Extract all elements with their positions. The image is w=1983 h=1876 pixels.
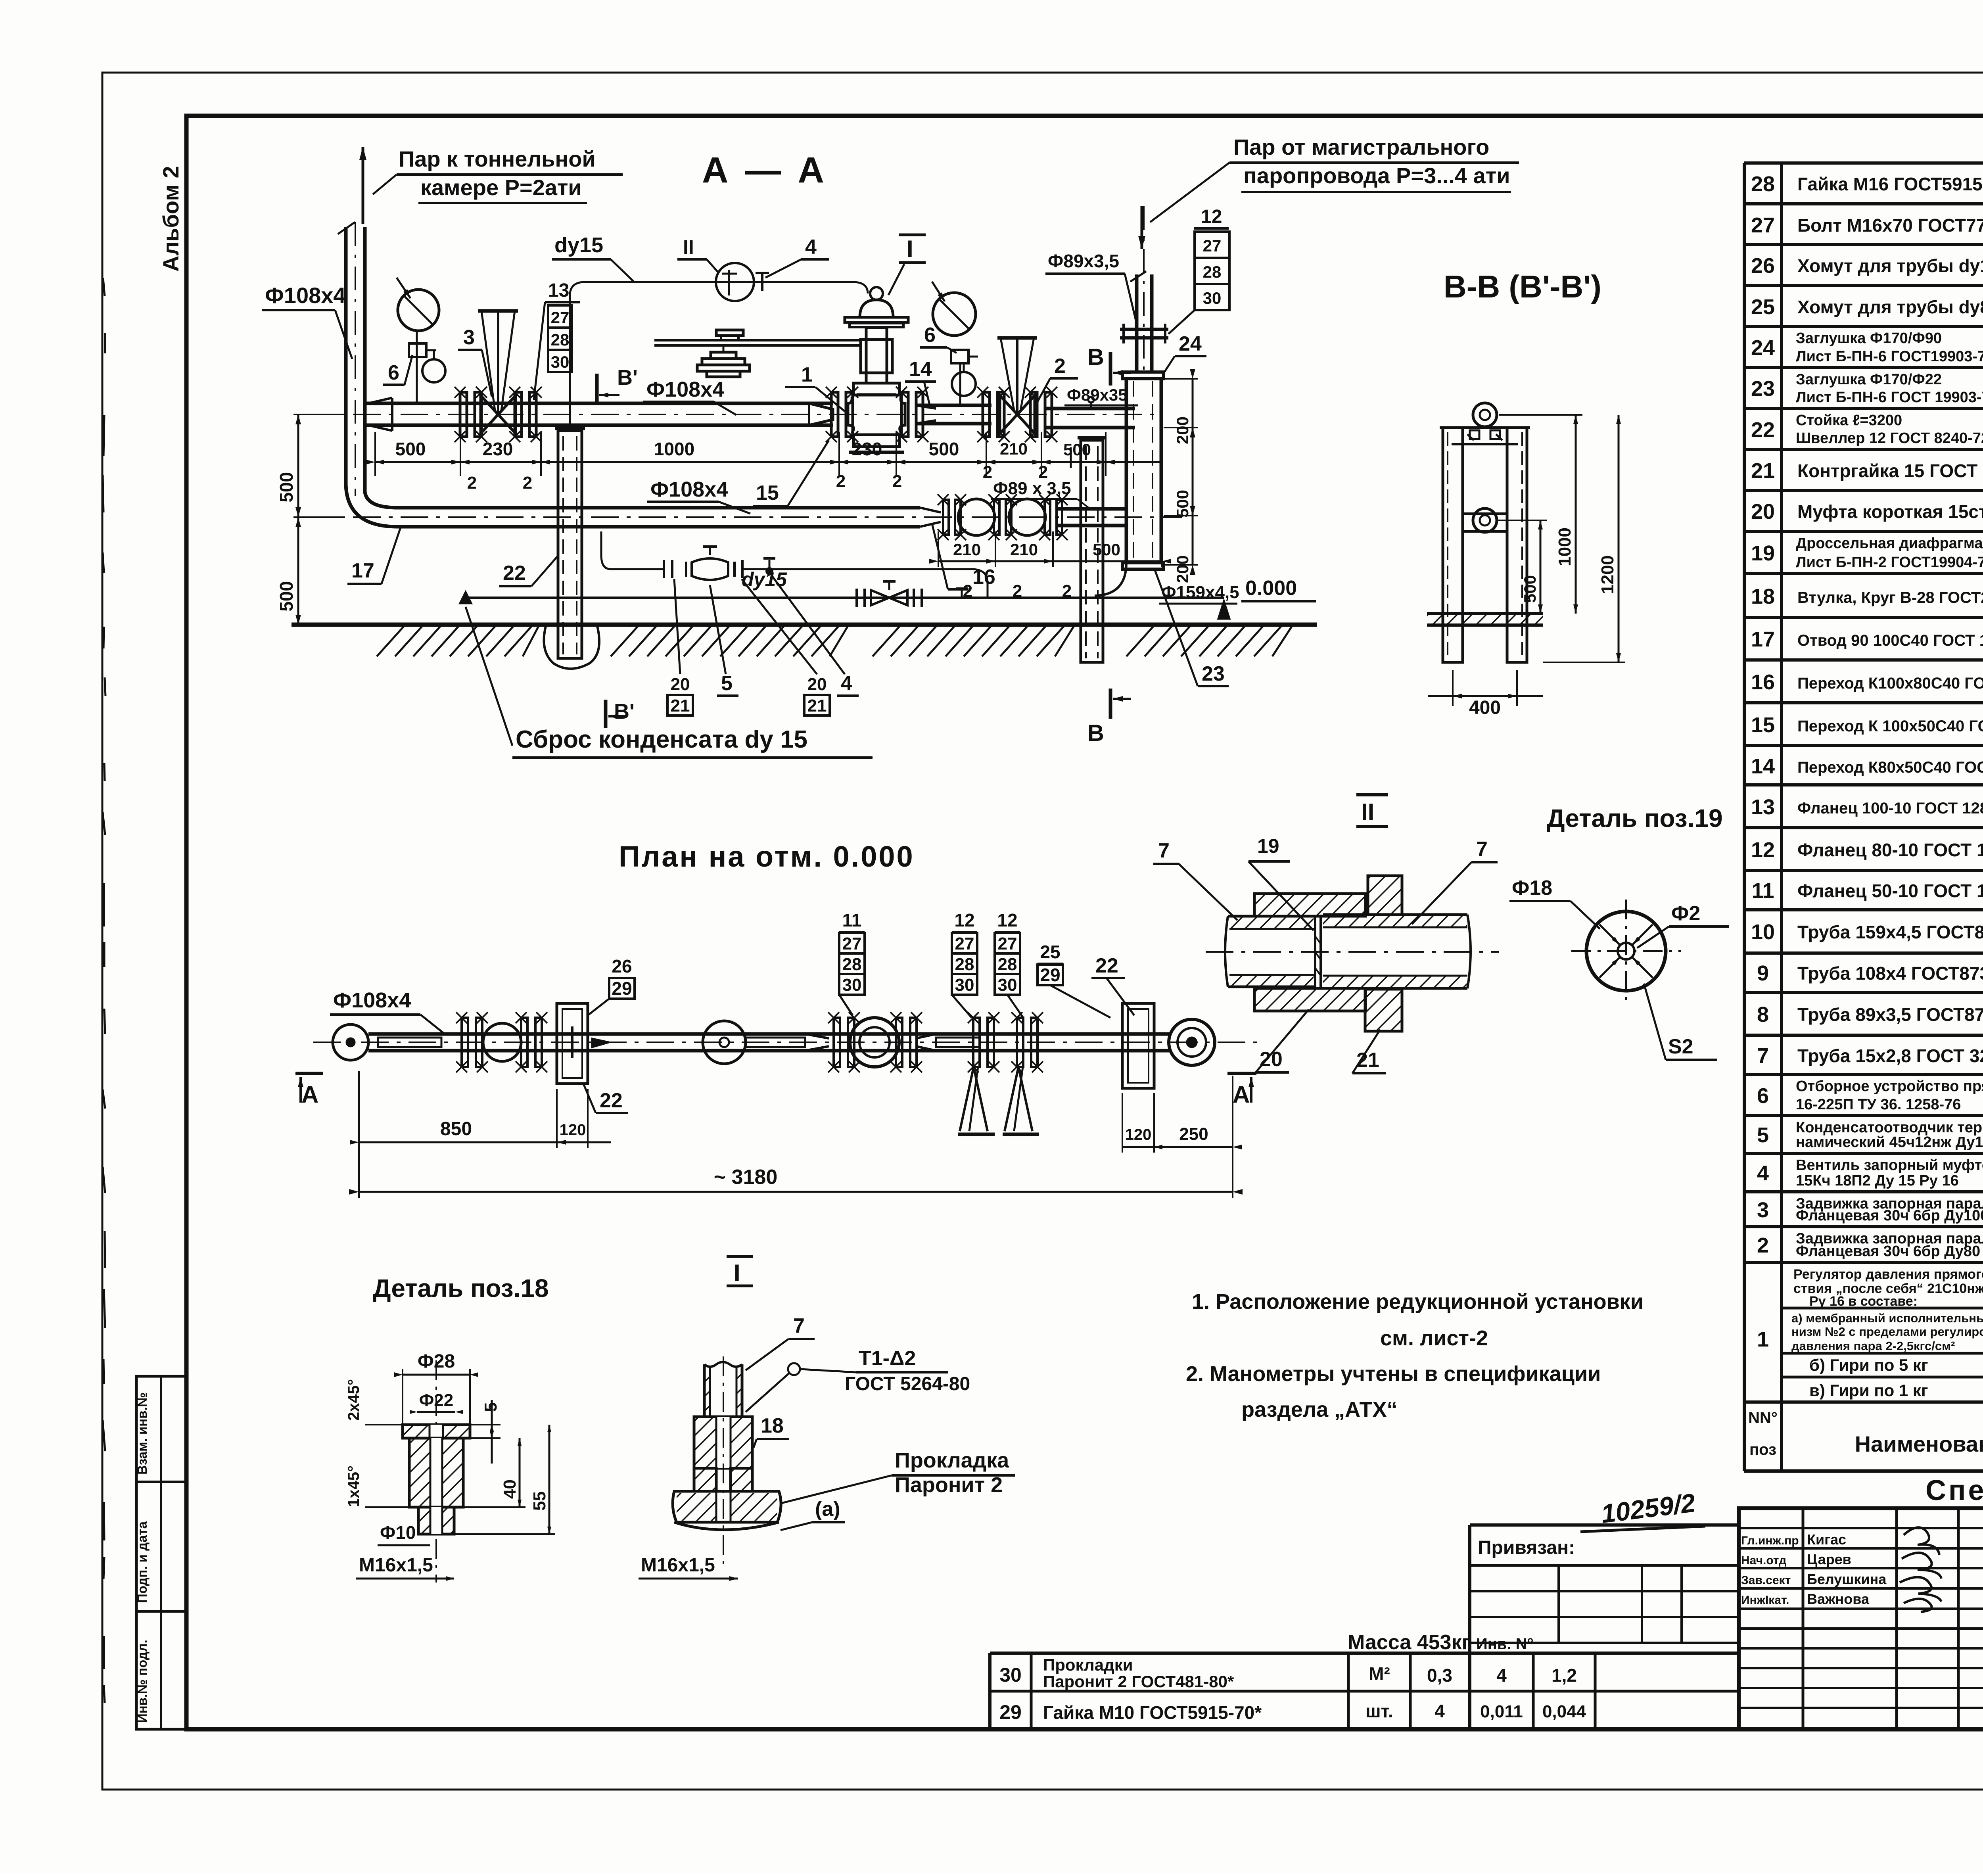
regulator membrane flange bbox=[845, 317, 908, 322]
svg-text:Паронит 2: Паронит 2 bbox=[895, 1473, 1003, 1497]
svg-text:Альбом 2: Альбом 2 bbox=[158, 166, 183, 272]
small tee valve on manifold bbox=[769, 560, 771, 569]
svg-text:400: 400 bbox=[1469, 697, 1501, 718]
svg-text:Зав.сект: Зав.сект bbox=[1741, 1574, 1791, 1587]
detail II centerline bbox=[1206, 951, 1499, 953]
plan right riser circles bbox=[1169, 1019, 1215, 1065]
svg-text:200: 200 bbox=[1173, 555, 1192, 583]
svg-text:1: 1 bbox=[1757, 1327, 1769, 1351]
plan post with clamp 26 bbox=[557, 1003, 588, 1084]
svg-text:6: 6 bbox=[924, 324, 936, 347]
svg-text:2: 2 bbox=[523, 473, 532, 493]
node I weld symbol bbox=[788, 1363, 800, 1375]
svg-text:Гл.инж.пр: Гл.инж.пр bbox=[1741, 1534, 1799, 1547]
svg-text:М16х1,5: М16х1,5 bbox=[641, 1555, 715, 1576]
svg-text:Ф108х4: Ф108х4 bbox=[646, 378, 724, 401]
svg-text:паропровода Р=3...4 ати: паропровода Р=3...4 ати bbox=[1243, 163, 1510, 188]
svg-text:12: 12 bbox=[954, 910, 974, 930]
plan flange valve flange bbox=[462, 1018, 468, 1067]
svg-text:2: 2 bbox=[1757, 1233, 1769, 1257]
svg-text:11: 11 bbox=[1751, 879, 1774, 903]
svg-text:Хомут для трубы dy100: Хомут для трубы dy100 bbox=[1797, 255, 1983, 276]
svg-text:29: 29 bbox=[612, 978, 632, 999]
plan left elbow circle 17 bbox=[333, 1024, 368, 1060]
svg-text:23: 23 bbox=[1202, 662, 1225, 685]
svg-text:11: 11 bbox=[842, 910, 862, 930]
svg-text:Переход К100х80С40 ГОСТ17378-8: Переход К100х80С40 ГОСТ17378-83* bbox=[1797, 675, 1983, 692]
svg-text:давления пара 2-2,5кгс/см²: давления пара 2-2,5кгс/см² bbox=[1791, 1339, 1955, 1353]
detail II diaphragm 19 bbox=[1314, 916, 1316, 988]
svg-text:I: I bbox=[734, 1260, 740, 1286]
detail II right pipe bbox=[1467, 915, 1471, 988]
svg-text:2: 2 bbox=[1038, 462, 1048, 482]
svg-text:7: 7 bbox=[793, 1314, 805, 1337]
plan slot in pipe bbox=[378, 1038, 441, 1047]
detail 18 body bbox=[409, 1438, 463, 1507]
flange pair right of valve 3 bbox=[515, 392, 522, 437]
svg-text:Хомут для трубы dy80: Хомут для трубы dy80 bbox=[1797, 297, 1983, 317]
svg-text:б) Гири по 5 кг: б) Гири по 5 кг bbox=[1809, 1356, 1928, 1374]
B-B top crossbar bbox=[1440, 426, 1530, 429]
detail 18 dim 40 bbox=[519, 1438, 521, 1507]
svg-text:Отвод 90 100С40 ГОСТ 17375-: Отвод 90 100С40 ГОСТ 17375-83* bbox=[1797, 632, 1983, 649]
ground hatching bbox=[377, 625, 405, 656]
svg-text:30: 30 bbox=[955, 975, 974, 995]
svg-text:4: 4 bbox=[1435, 1701, 1445, 1721]
svg-text:17: 17 bbox=[1751, 627, 1775, 651]
support post 22 bbox=[558, 431, 582, 658]
svg-text:6: 6 bbox=[1757, 1084, 1769, 1108]
svg-text:Паронит 2 ГОСТ481-80*: Паронит 2 ГОСТ481-80* bbox=[1043, 1672, 1234, 1691]
B-B left post bbox=[1443, 428, 1463, 662]
svg-text:Ф2: Ф2 bbox=[1671, 902, 1700, 925]
detail 18 top plate bbox=[403, 1425, 470, 1438]
scan marks left margin bbox=[103, 278, 105, 296]
svg-text:21: 21 bbox=[671, 696, 690, 715]
svg-text:13: 13 bbox=[548, 280, 569, 301]
svg-text:30: 30 bbox=[998, 975, 1017, 995]
svg-text:2х45°: 2х45° bbox=[345, 1379, 362, 1421]
svg-text:Швеллер 12 ГОСТ 8240-72*: Швеллер 12 ГОСТ 8240-72* bbox=[1796, 430, 1983, 447]
svg-text:8: 8 bbox=[1757, 1003, 1769, 1026]
svg-text:2: 2 bbox=[983, 462, 992, 482]
arrow down steam in bbox=[1141, 206, 1143, 249]
svg-text:Гайка М10 ГОСТ5915-70*: Гайка М10 ГОСТ5915-70* bbox=[1043, 1702, 1262, 1723]
impulse line dy15 bbox=[569, 295, 571, 403]
svg-text:19: 19 bbox=[1751, 541, 1775, 565]
dim 500 500 vertical left bbox=[297, 414, 299, 625]
svg-text:Т1-Δ2: Т1-Δ2 bbox=[859, 1347, 916, 1370]
svg-text:Ф89х35: Ф89х35 bbox=[1067, 386, 1128, 404]
node I bushing 18 bbox=[694, 1417, 752, 1468]
svg-text:28: 28 bbox=[998, 955, 1017, 974]
svg-text:18: 18 bbox=[761, 1414, 784, 1437]
svg-text:1200: 1200 bbox=[1598, 555, 1617, 594]
svg-text:5: 5 bbox=[1757, 1123, 1769, 1147]
detail 18 dim F28 bbox=[402, 1369, 403, 1425]
pit blob around post bbox=[544, 625, 599, 669]
detail II left pipe bbox=[1225, 916, 1228, 987]
svg-text:20: 20 bbox=[1260, 1048, 1283, 1071]
svg-text:Труба 15х2,8 ГОСТ 3262-75*: Труба 15х2,8 ГОСТ 3262-75* bbox=[1797, 1045, 1983, 1066]
detail 19 circle bbox=[1586, 911, 1666, 991]
svg-text:230: 230 bbox=[483, 439, 513, 459]
detail 19 radial arrows bbox=[1633, 958, 1653, 978]
svg-text:40: 40 bbox=[500, 1479, 520, 1499]
pipe to collector bbox=[1044, 407, 1135, 410]
svg-text:28: 28 bbox=[1203, 263, 1222, 281]
svg-text:17: 17 bbox=[351, 559, 374, 582]
svg-text:21: 21 bbox=[1751, 459, 1775, 483]
B-B top pipe clamp bbox=[1473, 403, 1497, 427]
svg-text:12: 12 bbox=[997, 910, 1017, 930]
plan pipe bbox=[368, 1032, 1170, 1036]
svg-text:В: В bbox=[1087, 344, 1104, 370]
support post right bbox=[1081, 440, 1103, 662]
svg-text:Стойка ℓ=3200: Стойка ℓ=3200 bbox=[1796, 412, 1902, 429]
specification table grid bbox=[1744, 161, 1983, 165]
svg-text:12: 12 bbox=[1201, 206, 1222, 227]
svg-text:26: 26 bbox=[612, 956, 632, 976]
svg-text:500: 500 bbox=[1173, 490, 1192, 518]
svg-text:20: 20 bbox=[671, 675, 690, 694]
condensate ground line bbox=[466, 597, 1224, 599]
svg-text:Пар к тоннельной: Пар к тоннельной bbox=[399, 146, 596, 171]
svg-text:а) мембранный исполнительный м: а) мембранный исполнительный меха- bbox=[1791, 1311, 1983, 1325]
svg-text:Ф108х4: Ф108х4 bbox=[333, 988, 411, 1012]
svg-text:22: 22 bbox=[503, 562, 526, 585]
riser flange joint bbox=[1120, 328, 1168, 331]
svg-text:А — А: А — А bbox=[702, 150, 827, 190]
drain arrow tick bbox=[460, 592, 471, 603]
svg-text:Привязан:: Привязан: bbox=[1478, 1537, 1575, 1558]
svg-text:210: 210 bbox=[953, 540, 981, 559]
manifold down to drain level bbox=[972, 569, 988, 597]
svg-text:2. Манометры учтены в спе: 2. Манометры учтены в спецификации bbox=[1186, 1362, 1601, 1386]
valve 4 on impulse line bbox=[761, 273, 763, 291]
svg-text:500: 500 bbox=[1063, 440, 1091, 459]
svg-text:Ф10: Ф10 bbox=[380, 1522, 416, 1543]
svg-text:(а): (а) bbox=[815, 1498, 840, 1521]
svg-text:1х45°: 1х45° bbox=[345, 1466, 362, 1507]
collector bottom cap 23 bbox=[1122, 563, 1164, 569]
svg-text:В: В bbox=[1087, 720, 1104, 746]
svg-text:Прокладка: Прокладка bbox=[895, 1448, 1009, 1472]
plan regulator circles bbox=[834, 1018, 840, 1067]
svg-text:Сброс конденсата dy 15: Сброс конденсата dy 15 bbox=[516, 726, 807, 753]
svg-text:3: 3 bbox=[463, 326, 475, 349]
svg-text:Ф89 х 3,5: Ф89 х 3,5 bbox=[993, 479, 1071, 498]
svg-text:26: 26 bbox=[1751, 254, 1775, 278]
svg-text:2: 2 bbox=[467, 473, 477, 493]
svg-text:Ф89х3,5: Ф89х3,5 bbox=[1048, 251, 1119, 271]
svg-text:Инв.№ подл.: Инв.№ подл. bbox=[135, 1640, 150, 1723]
svg-text:М²: М² bbox=[1369, 1663, 1390, 1684]
svg-text:29: 29 bbox=[1040, 965, 1060, 985]
taper 14 bbox=[915, 405, 936, 424]
svg-text:раздела „АТХ“: раздела „АТХ“ bbox=[1241, 1398, 1397, 1421]
svg-text:Кигас: Кигас bbox=[1807, 1531, 1846, 1548]
svg-text:9: 9 bbox=[1757, 961, 1769, 985]
gate valve 3 bbox=[481, 395, 498, 434]
svg-text:ИнжIкат.: ИнжIкат. bbox=[1741, 1594, 1789, 1607]
gauge II on impulse line bbox=[716, 263, 754, 301]
drawing inner frame bbox=[186, 116, 1983, 1729]
svg-text:Масса 453кг: Масса 453кг bbox=[1348, 1631, 1470, 1654]
regulator valve column bbox=[866, 328, 887, 383]
svg-text:12: 12 bbox=[1751, 838, 1775, 862]
svg-text:200: 200 bbox=[1173, 416, 1192, 444]
svg-text:20: 20 bbox=[807, 675, 827, 694]
svg-text:7: 7 bbox=[1476, 838, 1488, 861]
svg-text:Заглушка Ф170/Ф22: Заглушка Ф170/Ф22 bbox=[1796, 371, 1942, 388]
detail 18 lower step bbox=[418, 1507, 454, 1534]
gate valve 2 right bbox=[983, 392, 990, 437]
svg-text:Наименование: Наименование bbox=[1855, 1431, 1983, 1456]
B-B ground plate bbox=[1427, 612, 1543, 615]
svg-text:Втулка, Круг В-28 ГОСТ2590-71*: Втулка, Круг В-28 ГОСТ2590-71* bbox=[1797, 589, 1983, 606]
svg-text:Фланец 80-10 ГОСТ 12821-80*: Фланец 80-10 ГОСТ 12821-80* bbox=[1797, 840, 1983, 860]
svg-text:Труба 159х4,5 ГОСТ8732-78*: Труба 159х4,5 ГОСТ8732-78* bbox=[1797, 922, 1983, 942]
svg-text:1,2: 1,2 bbox=[1551, 1665, 1577, 1686]
svg-text:24: 24 bbox=[1179, 332, 1202, 355]
regulator head dome bbox=[860, 300, 893, 317]
svg-text:dy15: dy15 bbox=[554, 233, 603, 257]
lower pipe run F108 bbox=[397, 506, 920, 510]
steam inlet riser F89 bbox=[1135, 274, 1139, 373]
svg-text:II: II bbox=[683, 236, 694, 258]
svg-text:27: 27 bbox=[1203, 236, 1222, 255]
svg-text:6: 6 bbox=[388, 361, 399, 384]
taper at start bbox=[368, 398, 392, 431]
svg-text:210: 210 bbox=[1010, 540, 1038, 559]
svg-text:Регулятор давления прямого дей: Регулятор давления прямого дей- bbox=[1793, 1267, 1983, 1282]
svg-text:30: 30 bbox=[842, 975, 862, 995]
pipe from traps to collector bbox=[1057, 507, 1126, 511]
svg-text:1: 1 bbox=[801, 363, 813, 386]
svg-text:ГОСТ 5264-80: ГОСТ 5264-80 bbox=[845, 1373, 970, 1395]
B-B middle clamp bbox=[1473, 508, 1497, 532]
svg-text:500: 500 bbox=[276, 472, 297, 503]
collector elbow to drain bbox=[1095, 563, 1126, 596]
svg-text:поз: поз bbox=[1749, 1441, 1776, 1458]
svg-text:Нач.отд: Нач.отд bbox=[1741, 1554, 1786, 1567]
svg-text:500: 500 bbox=[395, 439, 426, 459]
svg-text:850: 850 bbox=[440, 1118, 472, 1139]
plan dim 850 120 bbox=[359, 1141, 557, 1143]
impulse line to regulator head bbox=[853, 282, 868, 293]
svg-text:0,044: 0,044 bbox=[1542, 1702, 1586, 1721]
svg-text:27: 27 bbox=[1751, 213, 1775, 237]
svg-text:в) Гири по 1 кг: в) Гири по 1 кг bbox=[1809, 1381, 1928, 1400]
svg-text:30: 30 bbox=[999, 1664, 1022, 1686]
svg-text:0,3: 0,3 bbox=[1427, 1665, 1452, 1686]
svg-text:5: 5 bbox=[721, 672, 733, 695]
svg-text:Болт М16х70 ГОСТ7798-70*: Болт М16х70 ГОСТ7798-70* bbox=[1797, 215, 1983, 236]
svg-text:30: 30 bbox=[1203, 289, 1222, 307]
plan valve 2b fan bbox=[1017, 1018, 1023, 1067]
dims 210 210 500 lower bbox=[938, 560, 1162, 562]
svg-text:19: 19 bbox=[1257, 835, 1279, 857]
detail 18 centerline bbox=[435, 1360, 437, 1583]
svg-text:16: 16 bbox=[1751, 670, 1775, 694]
svg-text:Белушкина: Белушкина bbox=[1807, 1571, 1887, 1587]
svg-text:План на отм. 0.000: План на отм. 0.000 bbox=[619, 840, 915, 873]
detail 18 dim 55 bbox=[548, 1425, 550, 1534]
svg-text:Ф18: Ф18 bbox=[1512, 877, 1552, 900]
svg-text:Деталь поз.18: Деталь поз.18 bbox=[373, 1274, 549, 1302]
svg-text:18: 18 bbox=[1751, 585, 1775, 608]
svg-text:22: 22 bbox=[1751, 418, 1775, 442]
svg-text:Переход К 100х50С40 ГОСТ17378-: Переход К 100х50С40 ГОСТ17378-83* bbox=[1797, 717, 1983, 735]
arrow up steam out bbox=[362, 147, 364, 224]
svg-text:Царев: Царев bbox=[1807, 1551, 1851, 1567]
svg-text:А: А bbox=[301, 1081, 318, 1108]
title block signature table bbox=[1802, 1508, 1805, 1729]
upper pipe run bbox=[365, 402, 833, 405]
svg-text:25: 25 bbox=[1751, 295, 1775, 319]
svg-text:24: 24 bbox=[1751, 336, 1775, 360]
svg-text:1000: 1000 bbox=[654, 439, 694, 459]
svg-text:Контргайка 15 ГОСТ 8968-75: Контргайка 15 ГОСТ 8968-75 bbox=[1797, 460, 1983, 481]
detail 18 dim 5 bbox=[470, 1424, 501, 1425]
svg-text:4: 4 bbox=[841, 672, 852, 695]
svg-text:Заглушка Ф170/Ф90: Заглушка Ф170/Ф90 bbox=[1796, 330, 1942, 347]
svg-text:27: 27 bbox=[551, 308, 570, 327]
detail II coupling 20 bbox=[1254, 894, 1365, 916]
svg-text:210: 210 bbox=[1000, 439, 1028, 458]
svg-text:Спецификация: Спецификация bbox=[1925, 1475, 1983, 1506]
svg-text:250: 250 bbox=[1179, 1124, 1208, 1144]
svg-text:Подп. и дата: Подп. и дата bbox=[135, 1521, 150, 1603]
svg-text:0,011: 0,011 bbox=[1480, 1702, 1523, 1721]
svg-text:~ 3180: ~ 3180 bbox=[714, 1166, 778, 1189]
reducer 15 cone bbox=[809, 403, 833, 425]
svg-text:S2: S2 bbox=[1668, 1035, 1693, 1058]
svg-text:Ру 16 в составе:: Ру 16 в составе: bbox=[1809, 1294, 1918, 1309]
svg-text:Конденсатоотводчик термоди-: Конденсатоотводчик термоди- bbox=[1796, 1119, 1983, 1136]
svg-text:21: 21 bbox=[807, 696, 827, 715]
svg-text:II: II bbox=[1361, 799, 1374, 825]
condensate drain traps pair bbox=[943, 500, 949, 535]
svg-text:20: 20 bbox=[1751, 500, 1775, 524]
svg-text:Ф159х4,5: Ф159х4,5 bbox=[1161, 583, 1239, 602]
svg-text:500: 500 bbox=[1093, 540, 1120, 559]
left vertical pipe F108 bbox=[344, 227, 348, 483]
svg-text:3: 3 bbox=[1757, 1198, 1769, 1222]
B-B dims bbox=[1540, 520, 1542, 614]
taper 16 to F89 bbox=[920, 508, 941, 527]
B-B right post bbox=[1507, 428, 1527, 662]
svg-text:22: 22 bbox=[1095, 954, 1118, 977]
signatures scribbles bbox=[1904, 1527, 1939, 1555]
plan valve 2a fan bbox=[973, 1018, 980, 1067]
svg-text:Ф22: Ф22 bbox=[419, 1391, 454, 1410]
svg-text:шт.: шт. bbox=[1365, 1701, 1393, 1721]
svg-text:4: 4 bbox=[1757, 1161, 1769, 1185]
svg-text:7: 7 bbox=[1757, 1044, 1769, 1068]
svg-text:55: 55 bbox=[530, 1491, 549, 1511]
svg-text:В-В (В'-В'): В-В (В'-В') bbox=[1444, 269, 1601, 304]
svg-text:27: 27 bbox=[842, 934, 862, 953]
detail 18 dim F22 bbox=[417, 1411, 455, 1413]
svg-text:14: 14 bbox=[1751, 754, 1775, 778]
svg-text:В': В' bbox=[614, 700, 635, 723]
joint tick on upper pipe bbox=[569, 400, 571, 429]
svg-text:см. лист-2: см. лист-2 bbox=[1380, 1326, 1488, 1350]
svg-text:16-225П ТУ 36. 1258-76: 16-225П ТУ 36. 1258-76 bbox=[1796, 1096, 1961, 1113]
svg-text:NN°: NN° bbox=[1748, 1409, 1778, 1427]
gauge assembly 6 left bbox=[416, 330, 418, 403]
svg-text:2: 2 bbox=[892, 472, 902, 491]
dimension chain upper bbox=[375, 461, 1162, 463]
svg-text:2: 2 bbox=[836, 472, 846, 491]
svg-text:Фланцевая 30ч 6бр Ду80 Ру10: Фланцевая 30ч 6бр Ду80 Ру10 bbox=[1796, 1243, 1983, 1260]
svg-text:М16х1,5: М16х1,5 bbox=[359, 1555, 433, 1576]
svg-text:Ф108х4: Ф108х4 bbox=[265, 283, 346, 308]
svg-text:камере Р=2ати: камере Р=2ати bbox=[420, 175, 582, 200]
elbow to lower pipe bbox=[346, 483, 397, 527]
svg-text:7: 7 bbox=[1158, 839, 1170, 862]
svg-text:22: 22 bbox=[600, 1089, 623, 1112]
svg-text:Прокладки: Прокладки bbox=[1043, 1655, 1133, 1674]
svg-text:Деталь поз.19: Деталь поз.19 bbox=[1547, 804, 1723, 832]
counterweight stack bbox=[711, 352, 736, 359]
svg-text:120: 120 bbox=[560, 1121, 586, 1139]
svg-text:500: 500 bbox=[929, 439, 959, 459]
svg-text:Взам. инв.№: Взам. инв.№ bbox=[135, 1393, 150, 1475]
svg-text:25: 25 bbox=[1040, 942, 1060, 962]
svg-text:23: 23 bbox=[1751, 377, 1775, 401]
node I pipe 7 bbox=[704, 1362, 742, 1367]
svg-text:13: 13 bbox=[1751, 795, 1775, 819]
gauge assembly 6 right bbox=[959, 363, 961, 405]
svg-text:Инв. N°: Инв. N° bbox=[1476, 1635, 1534, 1653]
lever arm bbox=[654, 339, 861, 341]
svg-text:I: I bbox=[907, 236, 913, 262]
svg-text:Переход К80х50С40 ГОСТ17378-8: Переход К80х50С40 ГОСТ17378-83* bbox=[1797, 759, 1983, 776]
svg-text:Лист Б-ПН-2 ГОСТ19904-74: Лист Б-ПН-2 ГОСТ19904-74 bbox=[1796, 554, 1983, 571]
svg-text:Муфта короткая 15ст 8966-75: Муфта короткая 15ст 8966-75 bbox=[1797, 501, 1983, 522]
svg-text:Ф108х4: Ф108х4 bbox=[650, 478, 728, 501]
plan post right bbox=[1122, 1003, 1154, 1088]
svg-text:Лист Б-ПН-6 ГОСТ19903-74*: Лист Б-ПН-6 ГОСТ19903-74* bbox=[1796, 348, 1983, 365]
regulator cross body bbox=[848, 397, 853, 433]
svg-text:В': В' bbox=[617, 366, 638, 389]
ground level valve cluster bbox=[855, 589, 858, 607]
title block frame bbox=[1739, 1508, 1983, 1729]
plan centerline bbox=[313, 1042, 1261, 1043]
svg-text:Труба 89х3,5 ГОСТ8732-78*: Труба 89х3,5 ГОСТ8732-78* bbox=[1797, 1004, 1983, 1025]
svg-text:120: 120 bbox=[1125, 1126, 1152, 1143]
svg-text:Дроссельная диафрагма Ф18/Ф2: Дроссельная диафрагма Ф18/Ф2 bbox=[1796, 535, 1983, 552]
svg-text:Важнова: Важнова bbox=[1807, 1591, 1870, 1607]
counterweight clamp above lever bbox=[716, 330, 743, 336]
flange pair after regulator bbox=[901, 392, 908, 437]
plan dim 120 250 right bbox=[1122, 1146, 1233, 1148]
svg-text:30: 30 bbox=[551, 353, 570, 371]
condensate manifold line bbox=[611, 568, 664, 570]
rows 29 30 table bbox=[990, 1652, 1739, 1655]
bobyshka tick bbox=[1090, 401, 1092, 409]
svg-text:500: 500 bbox=[1521, 575, 1539, 603]
svg-text:Фланец 50-10 ГОСТ 12821-80*: Фланец 50-10 ГОСТ 12821-80* bbox=[1797, 880, 1983, 901]
svg-text:1000: 1000 bbox=[1555, 528, 1575, 566]
svg-text:28: 28 bbox=[955, 955, 974, 974]
svg-text:Вентиль запорный муфтовый: Вентиль запорный муфтовый bbox=[1796, 1157, 1983, 1174]
svg-text:А: А bbox=[1233, 1081, 1250, 1108]
svg-text:14: 14 bbox=[909, 358, 932, 381]
